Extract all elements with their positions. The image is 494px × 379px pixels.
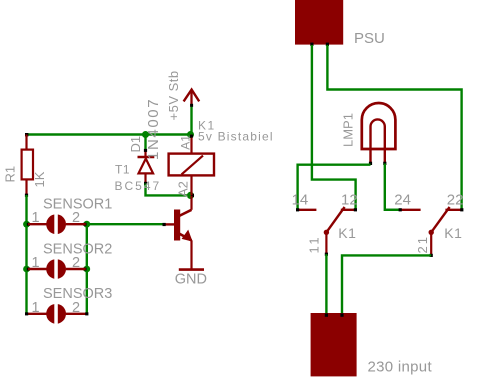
svg-text:2: 2 (72, 300, 80, 316)
junction dot left column sensor2 (23, 266, 30, 273)
svg-text:11: 11 (307, 235, 322, 254)
relay K1 5v Bistabiel coil (169, 119, 274, 198)
svg-text:230 input: 230 input (368, 359, 433, 376)
svg-text:5v Bistabiel: 5v Bistabiel (198, 130, 274, 144)
switch lever K1 left (307, 207, 357, 256)
wire left vertical column (25, 195, 27, 314)
junction dot diode top (142, 131, 149, 138)
diode D1 1N4007 (128, 98, 162, 185)
ground GND (175, 270, 207, 288)
power block 230 input (311, 313, 433, 376)
svg-text:1: 1 (32, 300, 40, 316)
svg-text:D1: D1 (128, 136, 143, 153)
svg-text:22: 22 (447, 192, 464, 209)
svg-text:1: 1 (32, 210, 40, 226)
wire right vertical column (86, 224, 88, 314)
svg-text:+5V Stb: +5V Stb (166, 70, 181, 120)
wire lamp right leg to contact 24 (385, 164, 400, 210)
svg-text:12: 12 (341, 192, 358, 209)
svg-text:K1: K1 (338, 225, 356, 241)
wire contact 11 to 230 input left pin (325, 254, 327, 313)
svg-text:PSU: PSU (354, 30, 385, 47)
svg-text:T1: T1 (115, 163, 130, 177)
svg-text:BC547: BC547 (115, 179, 162, 193)
wire PSU right pin to contact 22 (327, 45, 461, 209)
transistor T1 BC547 (115, 163, 193, 270)
wire contact 21 to 230 input right pin (342, 255, 431, 313)
svg-text:A2: A2 (176, 181, 191, 197)
svg-text:21: 21 (415, 235, 430, 253)
junction dot relay top (187, 131, 194, 138)
wire diode bottom to relay A2 junction (146, 184, 191, 196)
svg-text:2: 2 (72, 210, 80, 226)
power block PSU (295, 0, 385, 47)
svg-text:K1: K1 (444, 225, 462, 241)
supply +5V Stb arrow (166, 70, 199, 134)
sensor SENSOR1 (28, 197, 112, 236)
switch lever K1 right (415, 207, 463, 257)
junction dot right column sensor2 (83, 266, 90, 273)
sensor SENSOR2 (28, 241, 112, 280)
wire lamp left leg to contact 14 (298, 165, 371, 209)
svg-text:R1: R1 (3, 166, 18, 183)
contact terminal 22 (445, 192, 463, 212)
node corner dot at R1 top (25, 133, 28, 136)
svg-text:2: 2 (72, 255, 80, 271)
lamp LMP1 (341, 103, 396, 165)
svg-text:24: 24 (394, 192, 411, 209)
svg-text:1N4007: 1N4007 (145, 98, 162, 160)
junction dot left column sensor1 (23, 221, 30, 228)
svg-text:A1: A1 (179, 135, 193, 150)
sensor SENSOR3 (25, 286, 112, 325)
junction dot right column sensor1 (83, 221, 90, 228)
svg-text:1: 1 (32, 255, 40, 271)
svg-text:LMP1: LMP1 (341, 113, 356, 147)
junction dot relay A2 / collector (187, 192, 194, 199)
contact terminal 14 (292, 192, 317, 212)
svg-text:GND: GND (175, 272, 207, 288)
wire top horizontal net from R1 to relay junction (27, 133, 191, 135)
wire base net from sensors to T1 (87, 223, 164, 225)
contact terminal 24 (385, 192, 421, 212)
contact terminal 12 (341, 192, 358, 212)
svg-text:1K: 1K (32, 171, 47, 187)
wire PSU left pin to contact 12 (312, 45, 356, 209)
resistor R1 (3, 135, 48, 197)
svg-text:14: 14 (292, 192, 309, 209)
